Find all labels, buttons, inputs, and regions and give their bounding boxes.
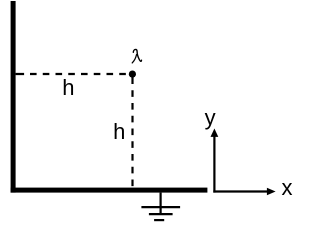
svg-text:x: x xyxy=(282,175,293,200)
svg-text:h: h xyxy=(62,75,74,100)
svg-text:h: h xyxy=(113,119,125,144)
svg-text:y: y xyxy=(205,105,216,130)
